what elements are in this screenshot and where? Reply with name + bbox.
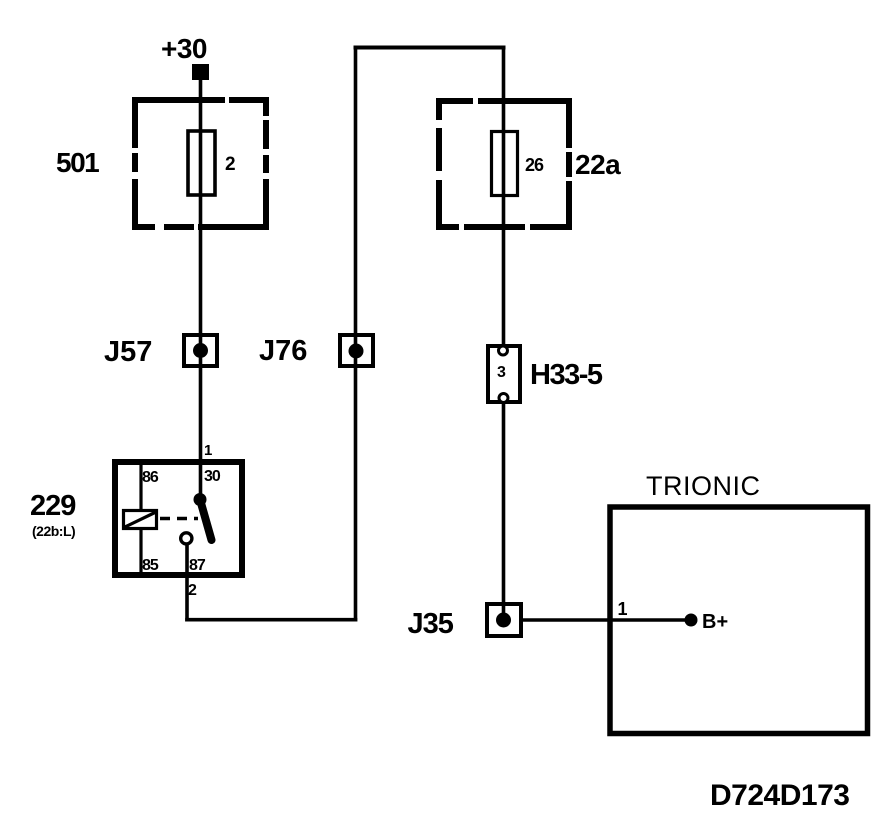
wire: +30 terminal down through fuse 2 and J57 to relay pin 30 xyxy=(199,78,203,499)
svg-text:26: 26 xyxy=(525,155,544,175)
wire: top horizontal from J76 branch to fuse 26 branch xyxy=(354,46,506,50)
svg-text:1: 1 xyxy=(204,442,212,459)
relay coil pin 86 wire xyxy=(139,462,142,510)
H33-5 bottom hole xyxy=(499,394,508,403)
relay contact 87 (open circle) xyxy=(181,533,192,544)
fuse symbol 26 (rectangle) xyxy=(492,132,518,196)
fuse box 501 (dashed square) xyxy=(132,97,269,230)
svg-text:H33-5: H33-5 xyxy=(530,359,603,391)
svg-text:229: 229 xyxy=(30,490,76,522)
fuse box 22a (dashed square) xyxy=(436,98,572,230)
node B+ dot xyxy=(685,614,698,627)
svg-text:30: 30 xyxy=(204,468,221,485)
relay coil diagonal xyxy=(125,512,156,527)
svg-text:2: 2 xyxy=(225,154,236,175)
terminal +30 (black square) xyxy=(192,64,209,80)
relay switch pivot dot (pin 30) xyxy=(194,493,207,506)
svg-text:+30: +30 xyxy=(161,33,207,64)
connector J35 (square) xyxy=(487,604,521,636)
svg-text:501: 501 xyxy=(56,147,99,178)
wire: right vertical through fuse 26 and H33-5 down to J35 xyxy=(502,46,506,621)
connector J35 dot xyxy=(496,613,511,628)
H33-5 top hole xyxy=(499,346,508,355)
TRIONIC box xyxy=(610,507,868,734)
wire: bottom horizontal from relay 2 to J76 branch xyxy=(185,618,357,622)
connector J57 (square) xyxy=(184,335,217,366)
relay 229 box xyxy=(115,462,242,575)
relay coil (rectangle with diagonal) xyxy=(124,511,157,529)
wire: J35 to TRIONIC B+ xyxy=(521,618,691,621)
connector J76 (square) xyxy=(340,335,373,366)
relay coil pin 85 wire xyxy=(139,529,142,575)
relay actuation dashed link xyxy=(160,517,198,520)
svg-text:3: 3 xyxy=(497,364,506,381)
svg-text:J57: J57 xyxy=(104,336,152,368)
svg-text:J76: J76 xyxy=(259,335,307,367)
connector J57 dot xyxy=(193,343,208,358)
connector H33-5 (rectangle) xyxy=(488,346,520,402)
svg-text:D724D173: D724D173 xyxy=(710,779,849,812)
connector J76 dot xyxy=(349,344,364,359)
svg-text:(22b:L): (22b:L) xyxy=(32,523,75,539)
svg-text:2: 2 xyxy=(188,582,197,599)
svg-text:86: 86 xyxy=(142,469,159,486)
wire: relay pin 87 (2) down xyxy=(185,543,189,622)
svg-text:J35: J35 xyxy=(408,608,454,640)
svg-text:87: 87 xyxy=(189,557,206,574)
svg-text:85: 85 xyxy=(142,557,159,574)
svg-text:B+: B+ xyxy=(702,611,728,633)
fuse symbol 2 (rectangle) xyxy=(188,131,215,195)
wire: left vertical through J76 down to bottom corner xyxy=(354,46,358,622)
svg-text:1: 1 xyxy=(618,599,628,619)
relay switch arm xyxy=(200,500,212,541)
svg-text:22a: 22a xyxy=(575,149,621,180)
svg-text:TRIONIC: TRIONIC xyxy=(646,471,761,501)
